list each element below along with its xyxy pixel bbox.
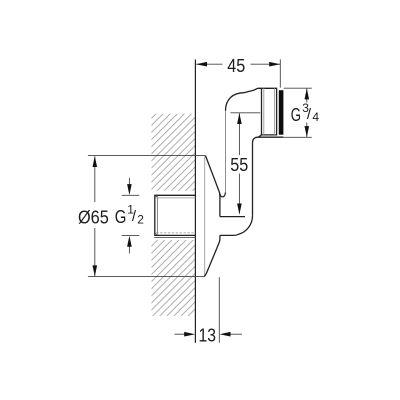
svg-text:55: 55 bbox=[230, 154, 248, 175]
nipple G1/2 thread crest outline bbox=[155, 195, 196, 235]
lower stub top edge bbox=[220, 216, 245, 218]
fillet between riser and escutcheon cone bbox=[220, 192, 226, 197]
13 dimension line tails bbox=[175, 333, 191, 335]
G3/4 extension lines bbox=[284, 87, 312, 89]
upper elbow inner corner and pipe bottom edge bbox=[253, 137, 284, 143]
lower elbow outer curve and stub bottom edge bbox=[220, 216, 253, 236]
G3/4 dimension line with arrows bbox=[306, 89, 308, 103]
upper elbow outer curve and top edge to nut bbox=[226, 88, 262, 111]
escutcheon base edge (light) bbox=[204, 156, 206, 276]
55 upper extension line bbox=[230, 112, 260, 114]
Ø65 dimension line with arrows bbox=[94, 156, 96, 202]
G1/2 upper arrow (outside, pointing down) bbox=[128, 178, 130, 190]
G3/4 text bbox=[291, 101, 321, 125]
svg-text:Ø65: Ø65 bbox=[78, 206, 109, 227]
45 right extension line bbox=[279, 59, 281, 87]
union nut body bbox=[258, 88, 276, 137]
wall section hatching (upper band) bbox=[152, 114, 196, 191]
G 3/4 thread band (black) bbox=[279, 90, 284, 135]
G1/2 extension lines bbox=[122, 194, 140, 196]
escutcheon top edge + Ø65 upper extension line bbox=[88, 155, 206, 157]
13 right extension line bbox=[218, 277, 220, 343]
wall hole lower edge bbox=[154, 236, 195, 238]
union nut facet lines bbox=[263, 88, 265, 135]
riser pipe left edge bbox=[225, 111, 227, 193]
svg-text:G: G bbox=[115, 206, 127, 227]
13 left arrowhead (pointing right) bbox=[184, 332, 195, 337]
svg-text:G: G bbox=[291, 104, 301, 125]
45 left arrowhead bbox=[196, 62, 207, 67]
wall face line (also extension line for 45 and 13 dims) bbox=[194, 60, 196, 343]
svg-text:2: 2 bbox=[137, 213, 144, 227]
55 dimension line with arrows bbox=[238, 113, 240, 155]
nipple thread root lines bbox=[156, 197, 195, 199]
G1/2 lower arrow (outside, pointing up) bbox=[128, 241, 130, 254]
wall section hatching (lower band) bbox=[152, 240, 196, 316]
nipple chamfer corner diagonals bbox=[155, 196, 158, 198]
svg-text:4: 4 bbox=[312, 110, 319, 124]
escutcheon cone outline (top slope, front face, bottom slope) bbox=[204, 156, 220, 277]
svg-text:45: 45 bbox=[227, 55, 245, 76]
escutcheon bottom edge + Ø65 lower extension line bbox=[88, 276, 204, 278]
Ø65 G 1/2 text bbox=[77, 203, 147, 228]
45 dimension line bbox=[196, 63, 222, 65]
riser pipe right edge bbox=[252, 143, 254, 216]
45 right arrowhead bbox=[269, 62, 280, 67]
svg-text:13: 13 bbox=[199, 324, 217, 345]
13 right arrowhead (pointing left) bbox=[220, 332, 231, 337]
nipple chamfer edge bbox=[156, 196, 158, 234]
